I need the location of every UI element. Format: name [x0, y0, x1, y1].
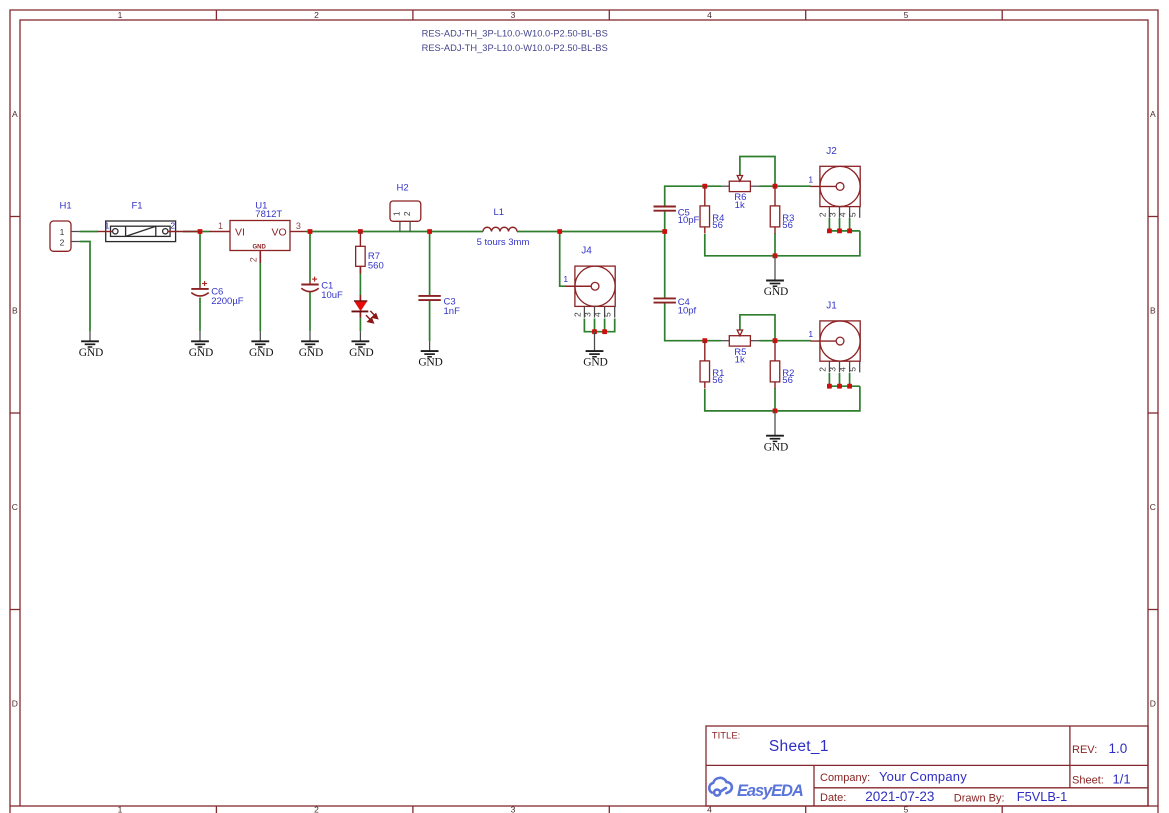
- wire node A to U1 VI: [200, 231, 209, 233]
- junction J1 pin2: [827, 384, 832, 389]
- svg-text:10pF: 10pF: [678, 215, 700, 226]
- svg-text:Sheet:: Sheet:: [1072, 775, 1104, 787]
- junction J1 pin3: [837, 384, 842, 389]
- ground GND (U1): [259, 331, 261, 341]
- svg-text:TITLE:: TITLE:: [712, 731, 741, 742]
- node D junction (C5/C4): [662, 229, 667, 234]
- BNC connector J1: [820, 321, 860, 361]
- wire J1 pins ground bus: [829, 385, 860, 387]
- ground GND (C1): [309, 331, 311, 341]
- wire cluster1 bottom rail: [705, 231, 860, 256]
- wire R2 bottom: [774, 388, 776, 411]
- svg-text:5: 5: [848, 212, 858, 217]
- svg-text:GND: GND: [249, 347, 273, 359]
- svg-text:RES-ADJ-TH_3P-L10.0-W10.0-P2.5: RES-ADJ-TH_3P-L10.0-W10.0-P2.50-BL-BS: [422, 29, 608, 39]
- wire L1 to node D: [517, 231, 665, 233]
- svg-text:GND: GND: [764, 441, 788, 453]
- svg-text:2: 2: [402, 211, 412, 216]
- svg-text:3: 3: [828, 212, 838, 217]
- wire C3 branch upper: [429, 232, 431, 296]
- resistor R4: [704, 186, 706, 206]
- svg-text:4: 4: [593, 312, 603, 317]
- svg-text:F5VLB-1: F5VLB-1: [1017, 789, 1068, 804]
- junction cluster1 left (C5/R4/R6): [702, 184, 707, 189]
- wire U1 VO to node B: [306, 231, 310, 233]
- svg-text:1: 1: [118, 10, 123, 20]
- svg-text:EasyEDA: EasyEDA: [737, 782, 803, 800]
- junction C3 branch: [427, 229, 432, 234]
- svg-text:GND: GND: [299, 347, 323, 359]
- node B junction (U1 VO/C1): [308, 229, 313, 234]
- svg-text:2: 2: [314, 10, 319, 20]
- svg-text:4: 4: [707, 10, 712, 20]
- BNC connector J2: [820, 166, 860, 206]
- svg-text:2: 2: [817, 212, 827, 217]
- svg-text:GND: GND: [79, 347, 103, 359]
- svg-text:2: 2: [170, 221, 175, 231]
- ground GND (J4): [594, 332, 596, 351]
- wire R3 bottom: [774, 233, 776, 256]
- fuse F1 pin leads: [98, 231, 113, 233]
- capacitor C3: [418, 295, 440, 297]
- ground GND (cluster1): [774, 256, 776, 281]
- svg-text:B: B: [12, 306, 18, 316]
- svg-text:2: 2: [572, 312, 582, 317]
- svg-text:1: 1: [392, 211, 402, 216]
- fuse F1: [98, 221, 201, 242]
- svg-text:1: 1: [118, 805, 123, 813]
- svg-text:2: 2: [249, 257, 259, 262]
- wire U1 pin2 to GND: [259, 252, 261, 332]
- svg-text:H2: H2: [397, 182, 409, 193]
- svg-text:GND: GND: [253, 245, 267, 251]
- capacitor C4: [654, 297, 676, 299]
- svg-text:56: 56: [712, 375, 723, 386]
- svg-text:56: 56: [712, 220, 723, 231]
- wire R7 branch middle: [359, 267, 361, 301]
- LED cathode bar: [352, 310, 369, 312]
- LED emission arrows: [366, 311, 378, 323]
- ground GND (H1): [89, 331, 91, 341]
- svg-text:GND: GND: [349, 347, 373, 359]
- svg-text:C: C: [12, 502, 18, 512]
- wire C4 link down: [664, 232, 666, 299]
- wire J4 pins ground bus: [584, 319, 614, 332]
- junction J1 pin4: [847, 384, 852, 389]
- svg-text:3: 3: [296, 221, 301, 231]
- svg-text:1: 1: [563, 274, 568, 284]
- svg-text:1: 1: [105, 221, 110, 231]
- svg-text:H1: H1: [60, 201, 72, 212]
- wire LED to GND: [359, 312, 361, 332]
- U1 pin 1 lead: [209, 231, 230, 233]
- svg-text:D: D: [1150, 699, 1156, 709]
- svg-text:J2: J2: [826, 146, 837, 157]
- wire R6 left pin gap: [705, 185, 721, 187]
- wire H1 pin2 down to GND: [80, 242, 90, 332]
- wire C5 top to cluster1 rail: [665, 186, 705, 206]
- potentiometer R6: [721, 185, 729, 187]
- wire cluster2 rail R5 right to J1 pin1: [775, 340, 811, 342]
- svg-text:1k: 1k: [735, 355, 745, 366]
- wire R5 wiper loop: [740, 315, 775, 341]
- resistor R2: [774, 341, 776, 361]
- wire C5 link up: [664, 211, 666, 232]
- svg-text:3: 3: [511, 805, 516, 813]
- junction cluster1 right (R6/R3/J2): [773, 184, 778, 189]
- wire R5 right pin gap: [760, 340, 776, 342]
- wire main rail node B to L1: [310, 231, 483, 233]
- ground GND (cluster2): [774, 411, 776, 436]
- junction J2 pin4: [847, 229, 852, 234]
- svg-text:560: 560: [368, 260, 384, 271]
- svg-text:Your Company: Your Company: [879, 769, 967, 784]
- ground GND (C3): [429, 341, 431, 351]
- wire H1 pin1 to F1: [80, 231, 98, 233]
- svg-text:3: 3: [583, 312, 593, 317]
- node C junction (J4 tap): [557, 229, 562, 234]
- svg-text:GND: GND: [583, 357, 607, 369]
- svg-text:Company:: Company:: [820, 772, 870, 784]
- junction R7 branch: [358, 229, 363, 234]
- svg-text:A: A: [1150, 109, 1156, 119]
- svg-text:2: 2: [314, 805, 319, 813]
- svg-text:2200µF: 2200µF: [211, 296, 244, 307]
- svg-text:1: 1: [218, 221, 223, 231]
- voltage regulator U1 7812T: [230, 221, 290, 251]
- svg-text:L1: L1: [494, 207, 505, 218]
- junction J4 pin4: [602, 329, 607, 334]
- svg-text:C: C: [1150, 502, 1156, 512]
- svg-text:2: 2: [60, 237, 65, 247]
- title block border: [706, 726, 1148, 806]
- resistor R7: [359, 232, 361, 247]
- junction J2 pin2: [827, 229, 832, 234]
- svg-text:F1: F1: [132, 201, 143, 212]
- ground GND (LED): [359, 331, 361, 341]
- wire C3 branch lower: [429, 300, 431, 341]
- svg-text:RES-ADJ-TH_3P-L10.0-W10.0-P2.5: RES-ADJ-TH_3P-L10.0-W10.0-P2.50-BL-BS: [422, 43, 608, 53]
- wire cluster1 rail R6 right to J2 pin1: [775, 185, 811, 187]
- svg-text:REV:: REV:: [1072, 744, 1097, 756]
- wire node C down to J4 pin1: [560, 232, 566, 287]
- wire cluster2 bottom rail: [705, 386, 860, 411]
- wire R6 right pin gap: [760, 185, 776, 187]
- svg-text:2: 2: [817, 367, 827, 372]
- BNC connector J4: [575, 266, 615, 306]
- svg-text:2021-07-23: 2021-07-23: [865, 789, 934, 804]
- capacitor C6: [199, 285, 201, 289]
- svg-text:J1: J1: [826, 300, 837, 311]
- wire J2 pins ground bus: [829, 230, 860, 232]
- wire C6 branch upper: [199, 232, 201, 286]
- svg-text:VO: VO: [272, 226, 287, 238]
- junction cluster2 left (C4/R1/R5): [702, 338, 707, 343]
- LED D1 triangle: [354, 301, 368, 311]
- wire C1 branch lower: [309, 292, 311, 331]
- svg-text:3: 3: [511, 10, 516, 20]
- svg-text:10pf: 10pf: [678, 305, 697, 316]
- junction cluster2 gnd rail: [773, 409, 778, 414]
- junction J2 pin3: [837, 229, 842, 234]
- potentiometer R5: [721, 340, 729, 342]
- ground GND (C6): [199, 331, 201, 341]
- svg-text:5: 5: [848, 367, 858, 372]
- svg-text:A: A: [12, 109, 18, 119]
- svg-text:Drawn By:: Drawn By:: [954, 792, 1005, 804]
- svg-text:1/1: 1/1: [1113, 772, 1131, 787]
- resistor R1: [704, 341, 706, 361]
- svg-text:4: 4: [838, 212, 848, 217]
- junction cluster1 gnd rail: [773, 253, 778, 258]
- capacitor C5: [654, 206, 676, 208]
- svg-text:Sheet_1: Sheet_1: [769, 738, 829, 755]
- resistor R3: [774, 186, 776, 206]
- svg-text:1k: 1k: [735, 200, 745, 211]
- svg-text:VI: VI: [235, 226, 245, 238]
- svg-text:1nF: 1nF: [444, 306, 461, 317]
- svg-text:56: 56: [782, 220, 793, 231]
- svg-text:5: 5: [603, 312, 613, 317]
- capacitor C1: [309, 281, 311, 285]
- svg-text:56: 56: [782, 375, 793, 386]
- svg-text:B: B: [1150, 306, 1156, 316]
- svg-text:5: 5: [904, 10, 909, 20]
- wire R5 left pin gap: [705, 340, 721, 342]
- svg-text:GND: GND: [418, 357, 442, 369]
- wire C4 bottom to cluster2 rail: [665, 303, 705, 341]
- svg-text:Date:: Date:: [820, 792, 846, 804]
- wire R6 wiper loop: [740, 157, 775, 187]
- U1 pin 2 lead: [259, 251, 261, 264]
- wire F1 to node A (junction x200): [183, 231, 200, 233]
- wire C6 branch lower: [199, 298, 201, 332]
- wire C1 branch upper: [309, 232, 311, 282]
- svg-text:1.0: 1.0: [1109, 741, 1128, 756]
- EasyEDA logo cloud: [709, 778, 732, 796]
- svg-text:1: 1: [60, 227, 65, 237]
- junction cluster2 right (R5/R2/J1): [773, 338, 778, 343]
- U1 pin 3 lead: [290, 231, 306, 233]
- svg-text:1: 1: [808, 329, 813, 339]
- svg-text:1: 1: [808, 174, 813, 184]
- svg-text:D: D: [12, 699, 18, 709]
- svg-text:4: 4: [838, 367, 848, 372]
- svg-text:5 tours 3mm: 5 tours 3mm: [477, 237, 530, 248]
- inductor L1: [483, 227, 517, 231]
- junction J4 pin3: [592, 329, 597, 334]
- node A junction (F1/C6/U1): [198, 229, 203, 234]
- svg-text:7812T: 7812T: [255, 209, 282, 220]
- connector H1: [50, 221, 71, 251]
- svg-text:GND: GND: [764, 286, 788, 298]
- connector H2: [390, 201, 421, 221]
- svg-text:GND: GND: [189, 347, 213, 359]
- svg-text:3: 3: [828, 367, 838, 372]
- svg-text:J4: J4: [581, 246, 592, 257]
- svg-text:10uF: 10uF: [321, 290, 343, 301]
